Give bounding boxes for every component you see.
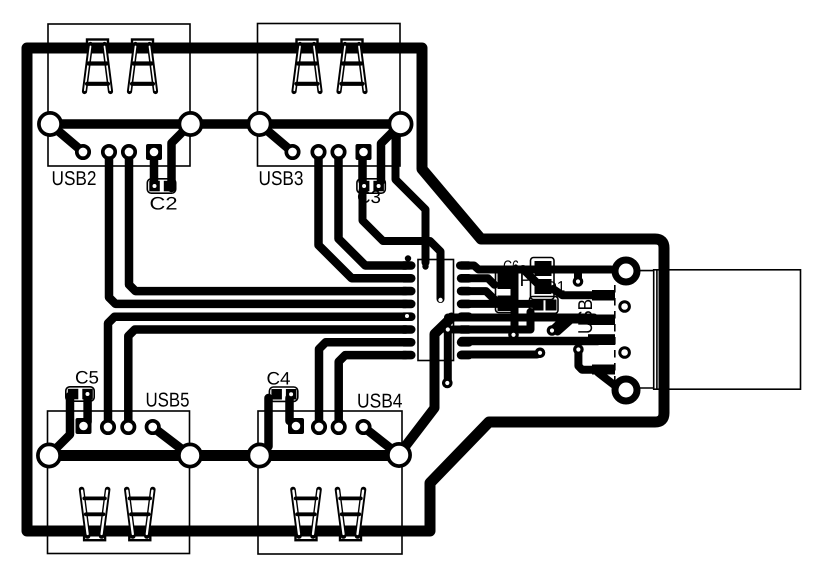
wire C6 right vertical to via: [511, 270, 519, 333]
USB4 shield slot A bottom bar: [296, 535, 317, 540]
wire GND bus bottom connecting USB5/USB4 shield holes: [49, 450, 399, 461]
resistor R1 outline: [531, 258, 555, 300]
svg-text:USB2: USB2: [52, 168, 97, 190]
via mid right: [547, 325, 558, 336]
wire USB5 D+ to U1 pad L5: [108, 317, 404, 427]
wire USB2 hole to GND pad stub: [50, 124, 83, 152]
svg-text:USB5: USB5: [146, 390, 190, 412]
wire U1 pad R7 to USB-B pad 3: [462, 337, 598, 346]
USB5 right shield hole: [179, 444, 201, 466]
USB5 shield slot B bottom bar: [129, 535, 150, 540]
USB connector USB3 courtyard: [258, 24, 401, 167]
via near USB-B top: [573, 276, 584, 287]
via right of U1: [535, 348, 546, 359]
wire via to USB-B pad2 diagonal: [552, 318, 565, 331]
wire via to USB-B pad 4: [578, 348, 596, 370]
USB2 left shield hole: [39, 113, 61, 135]
capacitor C6 outline: [496, 269, 516, 313]
wire U1 pad R2 to C6 top pad: [462, 278, 495, 285]
capacitor C6 pads: [498, 273, 513, 290]
USB-B pad 1: [592, 290, 615, 301]
wire R1 lower pad to USB-B pad 1: [553, 289, 594, 295]
IC U1 body: [418, 260, 454, 361]
wire USB3 D+ to U1 pad L2: [319, 152, 407, 278]
USB3 shield slot A top bar: [297, 40, 318, 45]
USB4 shield slot B bottom bar: [340, 535, 361, 540]
USB2 right shield hole: [179, 113, 201, 135]
capacitor C3 outline: [357, 179, 385, 193]
USB-B bottom mounting hole: [615, 379, 637, 401]
USB3 pin pads: [286, 146, 344, 158]
via below U1: [442, 378, 453, 389]
USB3 left shield hole: [248, 113, 270, 135]
wire USB-B pad 2 to via diagonal: [558, 320, 595, 332]
USB4 pin pads: [313, 421, 370, 433]
USB3 shield slot B top bar: [342, 40, 363, 45]
wire USB2 right hole to C2 right pad: [172, 124, 191, 188]
USB4 pin1 square pad: [288, 418, 304, 434]
wire USB2 D+ to U1 pad L4: [109, 152, 406, 304]
wire C3 left pad to U1 via: [363, 191, 441, 299]
IC U1 left pads: [399, 261, 415, 359]
capacitor C4 outline: [269, 387, 297, 401]
USB4 shield slot A legs: [293, 490, 319, 537]
wire USB5 left hole to C5 left pad: [49, 396, 70, 456]
USB-B housing top stub line: [637, 270, 654, 272]
USB3 shield slot B legs: [339, 45, 365, 92]
USB-B pad 4: [592, 365, 615, 375]
USB connector USB2 courtyard: [48, 24, 190, 166]
board edge outline: [27, 48, 664, 531]
wire VCC stub to via: [574, 270, 582, 280]
USB-B pad 3: [588, 334, 615, 345]
wire USB2 D- to U1 pad L3: [129, 152, 406, 291]
USB2 pin1 square pad: [146, 144, 162, 160]
USB-B top mounting hole: [615, 260, 637, 282]
USB-B pad 2: [588, 315, 615, 326]
svg-text:C5: C5: [75, 368, 99, 388]
diode D1 outline: [530, 297, 559, 314]
USB2 shield slot B top bar: [132, 40, 153, 45]
USB4 right shield hole: [388, 444, 410, 466]
resistor R1 pads: [535, 261, 552, 276]
capacitor C2 pads: [149, 181, 160, 192]
via near USB-B bottom: [573, 344, 584, 355]
wire GND bus top connecting USB2/USB3 shield holes: [50, 119, 401, 129]
via dot above U1 pin1: [405, 255, 411, 261]
capacitor C4 pads: [271, 389, 282, 400]
USB-B housing bottom stub line: [637, 387, 654, 389]
USB3 shield slot A legs: [294, 45, 320, 92]
USB2 shield slot B legs: [130, 45, 156, 92]
wire U1 pad R6 via to D1 left pad: [453, 312, 531, 330]
USB-B pin hole bottom: [620, 348, 630, 358]
wire USB5 hole to GND pad stub: [153, 427, 190, 456]
wire U1 pad R3 to C6 bottom pad: [462, 291, 495, 300]
svg-text:USB3: USB3: [259, 168, 304, 190]
wire USB3 D- to U1 pad L1: [339, 152, 407, 266]
USB4 shield slot B legs: [338, 490, 364, 537]
wire U1 pad R8 to via: [462, 351, 537, 359]
wire GND from USB4 right hole up to U1: [399, 318, 452, 455]
wire USB3 VBUS pad to C3 left pad: [358, 152, 367, 181]
USB2 shield slot A legs: [85, 45, 111, 92]
USB2 pin pads: [77, 146, 135, 158]
wire U1 pad R1 VCC to top mounting hole: [460, 266, 611, 270]
wire USB3 right hole to C3 right pad: [381, 124, 401, 181]
wire USB4 left hole to C4 left pad: [260, 398, 269, 456]
USB-B housing inner edge line: [656, 270, 658, 389]
USB5 left shield hole: [38, 444, 60, 466]
capacitor C5 outline: [66, 387, 94, 401]
USB5 shield slot B legs: [127, 490, 153, 537]
IC U1 right pads: [457, 261, 473, 359]
USB2 shield slot A top bar: [87, 40, 108, 45]
USB3 right shield hole: [389, 113, 411, 135]
diode D1 pads: [533, 300, 544, 311]
wire USB4 D- to U1 pad L8: [339, 355, 406, 427]
USB5 shield slot A legs: [82, 490, 108, 537]
wire GND trace to USB-B pad 2: [448, 314, 594, 322]
svg-text:C4: C4: [267, 369, 291, 389]
wire USB4 hole to GND pad stub: [364, 427, 400, 455]
USB connector USB4 courtyard: [258, 411, 402, 554]
wire via to via under U1: [444, 330, 452, 384]
svg-text:USB: USB: [575, 299, 597, 334]
svg-text:USB4: USB4: [357, 391, 403, 413]
wire USB5 D- to U1 pad L6: [128, 330, 406, 428]
USB-B pin hole top: [620, 302, 630, 312]
capacitor C5 pads: [68, 389, 79, 400]
wire VCC branch to R1 lower pad: [523, 269, 537, 283]
via dot inside U1: [422, 263, 428, 269]
wire USB2 VBUS pad to C2 left pad: [150, 152, 159, 183]
wire USB-B pad 4 to bottom mounting hole: [598, 373, 616, 387]
USB3 pin1 square pad: [356, 144, 372, 160]
USB-B connector J1 housing: [654, 270, 801, 389]
wire USB3 right hole to via at U1 pin1: [396, 124, 426, 263]
via hole in U1 slot trace: [438, 298, 442, 302]
USB5 shield slot A bottom bar: [84, 535, 105, 540]
wire USB4 D+ to U1 pad L7: [319, 342, 406, 427]
USB4 left shield hole: [248, 444, 270, 466]
svg-text:C2: C2: [150, 194, 178, 214]
USB5 pin1 square pad: [76, 418, 92, 434]
via at U1 pad R6: [443, 324, 454, 335]
USB connector USB5 courtyard: [48, 411, 190, 554]
capacitor C3 pads: [359, 181, 370, 192]
wire USB4 VBUS pad to C4 right pad: [285, 398, 294, 421]
capacitor C2 outline: [147, 179, 175, 193]
wire USB3 hole to GND pad stub: [260, 124, 293, 152]
USB5 pin pads: [102, 421, 159, 433]
via hole on USB5 D+ trace end: [405, 314, 409, 318]
USB-B footprint dashed edge: [614, 272, 616, 388]
via below C6: [508, 330, 519, 341]
wire U1 pad R4 to D1 left pad: [462, 300, 534, 308]
wire USB5 VBUS pad to C5 right pad: [83, 398, 92, 422]
